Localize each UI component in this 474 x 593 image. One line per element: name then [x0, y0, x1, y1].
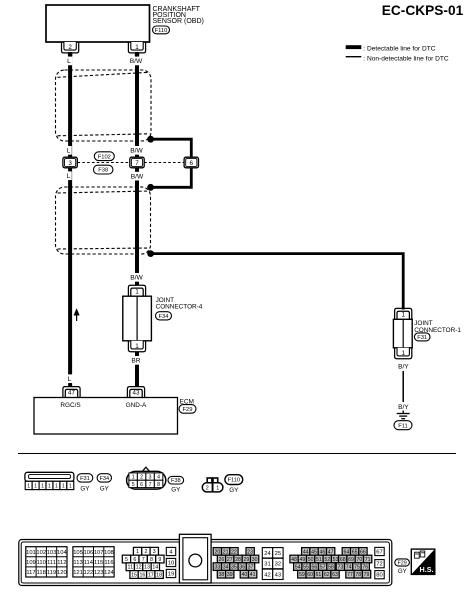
svg-text:1: 1	[135, 343, 139, 350]
svg-text:12: 12	[136, 565, 142, 571]
svg-text:40: 40	[241, 572, 247, 578]
svg-text:F31: F31	[80, 476, 90, 482]
svg-text:117: 117	[26, 570, 35, 576]
svg-text:10: 10	[168, 560, 174, 566]
svg-text:SENSOR (OBD): SENSOR (OBD)	[153, 18, 204, 25]
svg-text:B/Y: B/Y	[398, 363, 409, 370]
svg-text:66: 66	[360, 549, 366, 555]
svg-text:8: 8	[150, 557, 153, 563]
svg-text:102: 102	[36, 550, 46, 556]
svg-text:F102: F102	[98, 154, 111, 160]
svg-text:107: 107	[94, 550, 104, 556]
svg-text:74: 74	[346, 565, 352, 571]
svg-text:122: 122	[84, 570, 94, 576]
svg-text:44: 44	[303, 549, 309, 555]
svg-text:101: 101	[26, 550, 36, 556]
svg-text:109: 109	[26, 560, 36, 566]
svg-text:GY: GY	[80, 486, 90, 493]
svg-text:124: 124	[104, 570, 114, 576]
svg-text:6: 6	[140, 482, 143, 488]
svg-text:29: 29	[243, 557, 249, 563]
svg-text:30: 30	[252, 557, 258, 563]
svg-text:68: 68	[340, 557, 346, 563]
svg-text:1: 1	[27, 483, 30, 489]
svg-text:112: 112	[57, 560, 66, 566]
svg-text:51: 51	[316, 557, 322, 563]
svg-text:7: 7	[142, 557, 145, 563]
svg-text:48: 48	[291, 557, 297, 563]
svg-text:75: 75	[354, 565, 360, 571]
svg-text:32: 32	[275, 562, 281, 568]
svg-text:33: 33	[214, 565, 220, 571]
svg-text:13: 13	[144, 565, 150, 571]
svg-text:F34: F34	[159, 314, 170, 320]
svg-text:73: 73	[337, 565, 343, 571]
svg-text:F31: F31	[417, 335, 427, 341]
svg-text:27: 27	[227, 557, 233, 563]
svg-text:64: 64	[343, 549, 349, 555]
svg-text:BR: BR	[131, 358, 140, 365]
svg-text:3: 3	[153, 549, 156, 555]
svg-text:106: 106	[84, 550, 94, 556]
svg-text:L: L	[68, 376, 72, 383]
svg-text:1: 1	[48, 483, 51, 489]
svg-text:1: 1	[41, 483, 44, 489]
svg-text:42: 42	[264, 572, 270, 578]
svg-text:67: 67	[376, 549, 382, 555]
svg-text:46: 46	[319, 549, 325, 555]
svg-text:1: 1	[136, 549, 139, 555]
svg-text:GY: GY	[100, 486, 110, 493]
svg-text:GY: GY	[171, 486, 181, 493]
svg-text:118: 118	[37, 570, 46, 576]
svg-text:7: 7	[149, 482, 152, 488]
svg-text:B/W: B/W	[130, 58, 143, 65]
svg-text:43: 43	[275, 572, 281, 578]
svg-text:49: 49	[299, 557, 305, 563]
svg-text:L: L	[67, 58, 71, 65]
svg-text:60: 60	[307, 572, 313, 578]
svg-text:38: 38	[219, 572, 225, 578]
svg-text:70: 70	[356, 557, 362, 563]
svg-text:24: 24	[264, 551, 271, 557]
svg-text:115: 115	[94, 560, 103, 566]
svg-text:35: 35	[231, 565, 237, 571]
svg-text:78: 78	[355, 572, 361, 578]
svg-text:56: 56	[311, 565, 317, 571]
svg-text:31: 31	[264, 562, 270, 568]
svg-text:59: 59	[299, 572, 305, 578]
svg-text:53: 53	[333, 557, 339, 563]
svg-text:43: 43	[133, 390, 140, 397]
svg-text:103: 103	[47, 550, 57, 556]
svg-text:1: 1	[132, 474, 135, 480]
svg-text:113: 113	[73, 560, 82, 566]
svg-text:76: 76	[362, 565, 368, 571]
svg-text:3: 3	[149, 474, 152, 480]
svg-text:63: 63	[332, 572, 338, 578]
svg-text:1: 1	[69, 483, 72, 489]
svg-text:F38: F38	[98, 168, 108, 174]
svg-text:54: 54	[295, 565, 301, 571]
svg-text:36: 36	[239, 565, 245, 571]
svg-text:45: 45	[311, 549, 317, 555]
svg-text:F29: F29	[397, 560, 406, 566]
svg-text:25: 25	[275, 551, 281, 557]
svg-text:23: 23	[247, 549, 253, 555]
svg-text:2: 2	[144, 549, 147, 555]
svg-text:50: 50	[308, 557, 314, 563]
svg-text:1: 1	[401, 311, 405, 318]
svg-text:B/W: B/W	[131, 173, 144, 180]
svg-text:1: 1	[401, 350, 405, 357]
svg-text:79: 79	[364, 572, 370, 578]
svg-text:111: 111	[47, 560, 56, 566]
svg-text:47: 47	[328, 549, 334, 555]
svg-text:110: 110	[37, 560, 46, 566]
svg-text:37: 37	[248, 565, 254, 571]
svg-text:GY: GY	[229, 487, 239, 494]
svg-text:52: 52	[324, 557, 330, 563]
svg-text:F110: F110	[228, 478, 240, 484]
svg-text:28: 28	[235, 557, 241, 563]
svg-text:F34: F34	[99, 476, 109, 482]
svg-text:6: 6	[190, 160, 194, 167]
svg-text:5: 5	[125, 557, 128, 563]
svg-text:8: 8	[157, 482, 160, 488]
svg-text:RGC/S: RGC/S	[60, 402, 80, 409]
svg-text:41: 41	[250, 572, 256, 578]
svg-text:L: L	[67, 173, 71, 180]
svg-text:: Non-detectable line for DTC: : Non-detectable line for DTC	[363, 55, 449, 62]
svg-text:1: 1	[62, 483, 65, 489]
svg-text:2: 2	[140, 474, 143, 480]
svg-text:1: 1	[135, 288, 139, 295]
svg-text:15: 15	[131, 572, 137, 578]
svg-text:77: 77	[347, 572, 353, 578]
svg-text:105: 105	[73, 550, 83, 556]
svg-text:EC-CKPS-01: EC-CKPS-01	[382, 3, 464, 18]
svg-text:22: 22	[231, 549, 237, 555]
svg-text:26: 26	[219, 557, 225, 563]
svg-text:65: 65	[352, 549, 358, 555]
svg-text:19: 19	[168, 571, 174, 577]
svg-text:62: 62	[324, 572, 330, 578]
svg-text:80: 80	[376, 573, 382, 579]
svg-text:F11: F11	[398, 423, 408, 429]
svg-text:F38: F38	[171, 478, 181, 484]
svg-text:GND-A: GND-A	[126, 402, 147, 409]
svg-text:61: 61	[316, 572, 322, 578]
svg-text:116: 116	[104, 560, 113, 566]
svg-text:55: 55	[303, 565, 309, 571]
svg-text:108: 108	[104, 550, 114, 556]
svg-text:16: 16	[139, 572, 145, 578]
svg-text:72: 72	[376, 562, 382, 568]
svg-text:B/Y: B/Y	[398, 404, 409, 411]
svg-text:58: 58	[328, 565, 334, 571]
svg-text:GY: GY	[398, 568, 407, 575]
svg-text:F29: F29	[183, 407, 193, 413]
svg-text:21: 21	[223, 549, 229, 555]
svg-text:104: 104	[57, 550, 67, 556]
svg-text:119: 119	[47, 570, 56, 576]
svg-text:B/W: B/W	[130, 148, 143, 155]
svg-text:1: 1	[34, 483, 37, 489]
svg-text:123: 123	[94, 570, 104, 576]
svg-text:9: 9	[158, 557, 161, 563]
svg-text:17: 17	[148, 572, 154, 578]
svg-text:39: 39	[227, 572, 233, 578]
svg-text:3: 3	[68, 160, 72, 167]
svg-text:14: 14	[152, 565, 158, 571]
svg-text:69: 69	[348, 557, 354, 563]
svg-text:CONNECTOR-4: CONNECTOR-4	[156, 304, 203, 311]
svg-text:H.S.: H.S.	[420, 565, 434, 574]
svg-text:B/W: B/W	[130, 275, 143, 282]
svg-text:7: 7	[135, 160, 139, 167]
svg-text:34: 34	[223, 565, 229, 571]
svg-text:5: 5	[132, 482, 135, 488]
svg-text:114: 114	[84, 560, 94, 566]
svg-text:: Detectable line for DTC: : Detectable line for DTC	[363, 45, 435, 52]
svg-text:71: 71	[365, 557, 371, 563]
svg-text:18: 18	[156, 572, 162, 578]
svg-text:6: 6	[133, 557, 136, 563]
svg-text:47: 47	[68, 390, 75, 397]
svg-text:1: 1	[216, 486, 219, 492]
svg-text:2: 2	[206, 486, 209, 492]
svg-text:4: 4	[157, 474, 160, 480]
svg-text:57: 57	[320, 565, 326, 571]
svg-text:F110: F110	[155, 28, 168, 34]
svg-text:20: 20	[214, 549, 220, 555]
svg-text:2: 2	[68, 44, 72, 51]
svg-text:120: 120	[57, 570, 67, 576]
svg-text:11: 11	[128, 565, 134, 571]
svg-text:121: 121	[73, 570, 83, 576]
svg-text:1: 1	[55, 483, 58, 489]
svg-text:1: 1	[135, 44, 139, 51]
svg-text:L: L	[67, 148, 71, 155]
